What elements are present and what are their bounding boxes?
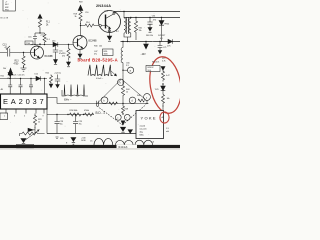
label -20V — [141, 54, 147, 56]
wire Q2 emitter — [79, 50, 81, 55]
label D12 — [35, 74, 39, 76]
resistor R47 on W1 — [109, 102, 117, 105]
svg-text:B C 1 3 8: B C 1 3 8 — [1, 18, 9, 20]
diode D70 — [161, 86, 166, 91]
wire main horizontal y44.5 — [31, 44, 74, 46]
net label BD-1 — [96, 111, 106, 115]
waveform sawtooth (b) 60Hz — [62, 85, 88, 97]
svg-text:n/s: n/s — [90, 141, 92, 143]
ground under rail — [71, 138, 76, 142]
diode D15 — [53, 42, 58, 47]
label D66 — [165, 24, 170, 26]
arrow to test point a — [111, 71, 117, 76]
svg-text:R64 4.7k: R64 4.7k — [152, 62, 159, 64]
ground — [78, 54, 82, 58]
inductor L2 — [122, 41, 123, 42]
label E — [66, 143, 68, 145]
label R64 — [152, 62, 159, 64]
supply arrow node +B (x=40) — [38, 14, 42, 18]
label 0.2mS — [96, 78, 104, 80]
diode D69 on rail3 — [168, 39, 172, 43]
capacitor C64 on rail2 — [149, 17, 150, 18]
svg-text:70u: 70u — [79, 124, 82, 126]
pin stub 4 — [44, 78, 45, 79]
wire down to W1 — [122, 96, 124, 104]
note box top-left — [3, 0, 15, 11]
capacitor C28 — [55, 115, 60, 134]
svg-text:non-verti: non-verti — [140, 128, 148, 131]
label R25 — [60, 138, 64, 140]
label BC248B — [89, 41, 98, 43]
node junction — [122, 70, 123, 71]
IC top wire y78.5 — [0, 78, 47, 80]
connector box bottom-left — [0, 113, 8, 120]
svg-text:C22 47u: C22 47u — [18, 75, 25, 77]
svg-text:3k: 3k — [75, 16, 77, 18]
resistor VR1 — [22, 132, 45, 135]
svg-text:4700k: 4700k — [84, 110, 89, 112]
label R61 — [139, 28, 143, 33]
label A — [153, 141, 155, 144]
label box 2700 — [25, 41, 33, 45]
resistor R67 — [162, 95, 165, 107]
resistor R13 — [22, 53, 25, 69]
red annotation: board B28-5295-A — [78, 57, 118, 62]
svg-text:board B28-5295-A: board B28-5295-A — [78, 57, 118, 62]
resistor R61 on rail2 — [135, 17, 136, 18]
rail 3 — [121, 41, 181, 43]
pin stub with capacitor C22 — [20, 78, 21, 79]
resistor R18 — [79, 12, 82, 24]
ground — [120, 127, 125, 131]
dashed yoke link left — [97, 106, 123, 125]
resistor R14 — [81, 24, 100, 27]
capacitor on W1 — [97, 101, 99, 106]
node — [162, 83, 163, 84]
svg-text:10k: 10k — [167, 98, 170, 100]
IC U1 EA2037 — [1, 94, 48, 109]
wire chain to yoke — [162, 105, 164, 113]
svg-text:YOKE: YOKE — [141, 116, 157, 121]
IC pins bottom — [6, 109, 44, 114]
transformer core — [127, 17, 129, 34]
capacitor C71 under rail3 — [159, 41, 160, 42]
resistor R23 vertical — [33, 114, 36, 129]
label +C30 — [81, 138, 86, 143]
black footer bar — [0, 145, 180, 148]
diode D66 on rail2 — [161, 17, 162, 18]
label 20k — [3, 68, 11, 80]
node — [23, 52, 24, 53]
test point c — [144, 94, 151, 101]
label R14 — [86, 22, 90, 24]
resistor R26 — [70, 113, 81, 116]
wire — [39, 19, 41, 20]
diode D12 on wire — [36, 76, 40, 80]
label box B28 — [103, 49, 114, 56]
transformer T1 primary — [123, 11, 124, 12]
label R18 — [74, 14, 78, 19]
ground — [21, 66, 27, 71]
wire Q3 emitter — [109, 29, 111, 36]
capacitor C13 — [0, 49, 31, 57]
label R13 — [14, 61, 20, 66]
label TL — [116, 31, 120, 33]
label D15 — [52, 41, 56, 43]
resistor small horiz — [138, 99, 144, 102]
transistor Q2 — [73, 36, 87, 50]
svg-text:D76 D77: D76 D77 — [158, 35, 166, 37]
wire — [35, 32, 45, 34]
svg-text:4700: 4700 — [14, 64, 20, 66]
note box text — [5, 2, 9, 12]
wire vertical x47 — [46, 109, 48, 134]
diagonal wire upper-left — [97, 80, 122, 105]
label 60Hz — [64, 100, 72, 102]
resistor R19 — [68, 44, 69, 45]
ground — [67, 61, 71, 66]
svg-text:47u: 47u — [94, 54, 97, 56]
left edge labels — [1, 76, 5, 92]
transformer T1 secondary — [130, 17, 131, 18]
capacitor C16 electrolytic — [53, 45, 58, 60]
svg-text:EA2037: EA2037 — [3, 97, 47, 106]
svg-text:10k: 10k — [99, 46, 102, 48]
red highlight ellipse — [146, 54, 185, 115]
label C56 3.3 — [126, 63, 130, 68]
label SCREEN box — [17, 144, 34, 148]
yoke coil bumps set3 — [135, 140, 153, 145]
arrow -20V under rail3 — [145, 41, 146, 42]
small ground x57 — [56, 137, 59, 139]
resistor R66 — [162, 70, 165, 81]
svg-text:15k: 15k — [139, 30, 142, 32]
test point b — [101, 97, 108, 104]
labels small parts — [28, 35, 44, 39]
arrow down — [121, 121, 125, 125]
label R72 4.7k — [162, 58, 166, 63]
arrow feed into chain — [161, 67, 165, 71]
yoke coil bumps set1 — [94, 138, 113, 145]
resistor R22 — [50, 75, 53, 84]
labels mid R30 C47 — [94, 46, 102, 56]
resistor R17 — [43, 33, 46, 43]
svg-text:−20V: −20V — [141, 54, 147, 56]
waveform sawtooth (a) — [88, 65, 113, 76]
label B(1)38 — [1, 18, 9, 20]
label R22 — [46, 73, 50, 75]
wire — [39, 43, 41, 45]
label C64 — [152, 16, 157, 22]
svg-text:20k: 20k — [3, 68, 6, 70]
resistor R16 — [38, 20, 41, 27]
svg-text:2N344A: 2N344A — [96, 4, 111, 8]
svg-text:R26 300k: R26 300k — [70, 110, 78, 112]
labels above rail3 — [146, 35, 166, 40]
label D75 — [167, 46, 171, 48]
IC right pin — [47, 98, 57, 104]
node — [122, 113, 123, 114]
label R19 — [62, 53, 66, 58]
label n/s — [90, 141, 92, 143]
node — [39, 32, 40, 33]
arrow onto rail — [128, 130, 133, 134]
ground — [107, 36, 112, 40]
svg-text:BC248B: BC248B — [89, 41, 98, 43]
svg-text:4.7k: 4.7k — [162, 61, 165, 63]
labels right of yoke — [166, 128, 170, 133]
dashed yoke link right — [123, 105, 147, 126]
test point b2 — [118, 79, 124, 85]
label FL1 — [46, 22, 50, 27]
transistor Q1 — [31, 46, 44, 59]
svg-text:0.2mS ∼: 0.2mS ∼ — [96, 78, 104, 80]
label BC348B — [45, 56, 54, 58]
bar gap with coil label — [117, 145, 138, 148]
resistor R48 (x122 column) — [122, 104, 125, 114]
ground — [148, 28, 152, 32]
svg-text:+C24 1u: +C24 1u — [54, 73, 61, 75]
node — [80, 25, 81, 26]
Q3 pin circles — [99, 24, 101, 26]
resistor R27 — [85, 113, 94, 116]
supply arrow +B2 (x=80.5) — [79, 2, 83, 4]
wire Q2 collector — [80, 23, 82, 36]
arrow marker left — [8, 68, 13, 75]
resistor R44 — [121, 86, 124, 96]
wiper arrow — [28, 128, 33, 131]
red circle annotation — [160, 112, 169, 123]
yoke coil bumps set2 — [116, 140, 134, 145]
svg-text:deg.: deg. — [140, 132, 144, 134]
rail top 2 — [124, 17, 180, 19]
pin stub with capacitor C23 — [30, 78, 31, 79]
label C71 — [163, 47, 167, 49]
wire — [39, 27, 41, 33]
test point e — [115, 114, 121, 120]
svg-text:wound: wound — [140, 126, 145, 128]
svg-text:1k: 1k — [38, 122, 40, 124]
test point f — [124, 114, 130, 120]
label C13 — [3, 45, 8, 50]
svg-text:1k: 1k — [126, 92, 128, 94]
capacitor C19 — [33, 33, 37, 45]
svg-text:15u: 15u — [60, 124, 63, 126]
svg-text:60Hz ∼: 60Hz ∼ — [64, 100, 72, 102]
diagonal wire upper-right — [122, 80, 146, 100]
label C21 — [13, 75, 17, 77]
label in small red circle — [162, 116, 165, 119]
ground rail y133.5 — [47, 133, 136, 135]
svg-text:B28-: B28- — [104, 51, 108, 53]
svg-text:47k: 47k — [62, 56, 65, 58]
svg-text:R63 15k: R63 15k — [146, 35, 153, 37]
test point a — [123, 69, 128, 71]
label box near ellipse — [146, 66, 160, 72]
capacitor C29 — [73, 115, 78, 134]
ground — [54, 60, 58, 64]
ground — [21, 139, 26, 143]
label GL5 — [105, 11, 109, 13]
diode D11 down — [8, 73, 12, 77]
label C22 — [18, 75, 25, 77]
wire Q3 collector up — [113, 12, 115, 14]
wire Q1 collector — [36, 45, 38, 47]
test point d — [129, 97, 136, 104]
rail top 1 — [114, 11, 180, 13]
svg-text:BD-1: BD-1 — [96, 111, 106, 115]
wire W2 y114.5 — [47, 114, 94, 116]
label FL1b — [47, 39, 51, 41]
wire W1 y103.5 — [57, 103, 148, 105]
yoke box — [136, 111, 164, 139]
label 2N344A — [96, 4, 111, 8]
transistor Q3 2N344A — [99, 11, 121, 33]
capacitor C24 electrolytic — [55, 75, 60, 85]
pin stub with capacitor C21 — [8, 79, 12, 95]
label R44 — [126, 89, 130, 94]
scan specks — [6, 2, 156, 142]
